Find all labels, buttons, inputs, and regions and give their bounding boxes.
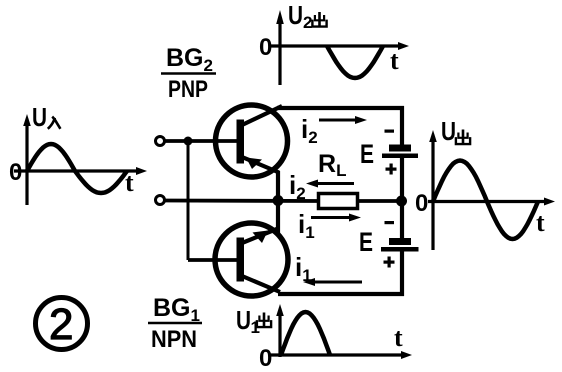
- svg-text:t: t: [390, 46, 399, 75]
- wire resistor to junction: [357, 199, 398, 203]
- label plus (E2): [384, 257, 395, 268]
- wire mid (bottom input to resistor): [165, 199, 319, 203]
- U2-out waveform axes (top graph): [270, 10, 409, 85]
- fraction line BG2/PNP: [161, 72, 216, 75]
- transistor Q1 (BG1 NPN): [215, 223, 288, 296]
- svg-text:t: t: [125, 168, 134, 197]
- terminal (input top): [156, 137, 165, 146]
- wire right rail lower: [400, 251, 404, 296]
- label U1-out: [236, 305, 271, 337]
- label plus (E1): [386, 164, 397, 175]
- junction node (output): [396, 196, 407, 207]
- transistor Q2 (BG2 PNP): [216, 105, 288, 177]
- svg-text:0: 0: [415, 190, 428, 217]
- wire emitter link vertical: [276, 171, 280, 235]
- wire top rail (collector Q2 to battery): [277, 106, 404, 110]
- svg-text:U: U: [441, 116, 456, 146]
- wire right rail mid-upper: [400, 158, 404, 201]
- label U-out: [441, 116, 470, 146]
- input waveform axes (U-in graph): [14, 114, 147, 205]
- svg-text:U: U: [288, 0, 303, 30]
- svg-text:NPN: NPN: [151, 326, 197, 353]
- svg-text:U: U: [236, 305, 251, 335]
- U2-out negative half-sine: [327, 46, 383, 78]
- current arrow i1 (bottom rail, leftward): [303, 278, 362, 286]
- junction node (emitter mid): [273, 195, 284, 206]
- svg-text:t: t: [536, 208, 545, 237]
- svg-text:U: U: [32, 102, 47, 132]
- wire top input to base: [165, 139, 240, 143]
- svg-text:E: E: [360, 139, 374, 169]
- terminal (input bottom): [156, 196, 165, 205]
- input sine wave: [27, 144, 127, 193]
- current arrow i2 (mid, leftward): [306, 180, 354, 188]
- U1-out positive half-sine: [281, 312, 330, 355]
- wire right rail mid-lower: [400, 201, 404, 239]
- output sine wave: [433, 161, 538, 240]
- battery E2 (bottom): [381, 238, 419, 252]
- label U-in: [32, 102, 60, 132]
- current arrow i2 (top rail): [319, 116, 367, 124]
- junction node (base link): [184, 137, 193, 146]
- battery E1 (top): [382, 145, 418, 159]
- label minus (E1): [385, 130, 395, 133]
- svg-text:0: 0: [259, 345, 272, 372]
- wire right rail upper: [400, 106, 404, 146]
- current arrow i1 (mid, rightward): [311, 214, 361, 222]
- svg-text:0: 0: [9, 159, 22, 186]
- svg-text:2: 2: [303, 13, 312, 32]
- svg-text:2: 2: [49, 300, 73, 349]
- wire bottom rail: [278, 292, 404, 296]
- svg-text:E: E: [359, 227, 373, 257]
- wire to bottom base: [188, 258, 240, 262]
- svg-text:0: 0: [259, 34, 272, 61]
- label minus (E2): [385, 221, 395, 224]
- figure number circle 2: [36, 298, 88, 350]
- U1-out waveform axes (bottom graph): [269, 304, 412, 359]
- label U2-out: [288, 0, 327, 32]
- U-out waveform axes (right graph): [428, 130, 555, 250]
- wire vertical base link: [187, 141, 190, 260]
- svg-text:t: t: [394, 323, 403, 352]
- resistor RL: [319, 194, 358, 209]
- svg-text:PNP: PNP: [168, 76, 208, 103]
- fraction line BG1/NPN: [148, 322, 202, 325]
